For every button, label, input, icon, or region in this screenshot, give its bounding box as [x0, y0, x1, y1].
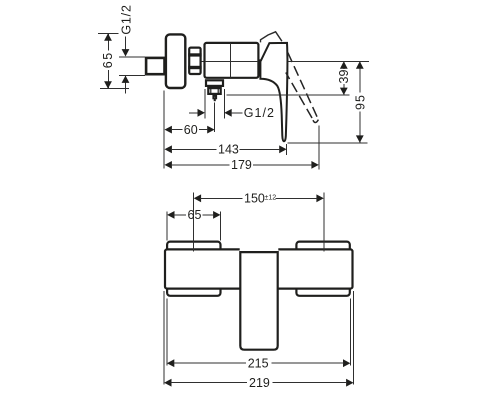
dim 39 (vertical, right) [337, 61, 351, 95]
svg-text:G1/2: G1/2 [244, 106, 275, 120]
svg-text:G1/2: G1/2 [119, 4, 133, 34]
dim 60 [164, 91, 214, 169]
dim 179 [165, 126, 319, 173]
outlet collar [206, 80, 223, 86]
mixer body [205, 43, 259, 78]
outlet hose nut [208, 87, 220, 95]
svg-text:60: 60 [184, 123, 198, 137]
dim 150±12 [194, 192, 324, 252]
outlet stub [213, 96, 216, 101]
escutcheon flange (side view) [166, 34, 185, 88]
dim 95 (vertical, far right) [227, 61, 369, 143]
wall union nipple (square pipe connector) [146, 58, 164, 74]
lever handle (solid position) [260, 43, 287, 141]
svg-text:143: 143 [218, 143, 239, 157]
svg-text:150: 150 [244, 192, 265, 206]
svg-text:95: 95 [353, 94, 367, 110]
svg-text:179: 179 [231, 158, 252, 172]
centerline axis [193, 61, 259, 63]
mask behind handle column [240, 247, 279, 293]
handle column (front) [240, 252, 277, 350]
right escutcheon (front) [296, 242, 349, 296]
union nut [188, 48, 201, 74]
dim 215 [167, 299, 351, 371]
dim 65 (vertical, left) [98, 33, 129, 88]
left escutcheon (front) [167, 242, 220, 296]
svg-text:65: 65 [101, 51, 115, 68]
dim 143 [165, 143, 287, 157]
dim G1/2 (top label with leader) [119, 4, 145, 93]
svg-text:±12: ±12 [265, 195, 277, 202]
dim G1/2 (outlet width) [189, 89, 275, 120]
svg-text:215: 215 [248, 356, 269, 370]
svg-text:39: 39 [337, 70, 351, 84]
lever alternate position (dashed blade) [286, 53, 319, 123]
lever alternate position (thin lines, raised) [261, 32, 282, 43]
dim 65 (bottom view) [167, 208, 220, 240]
mixer body bar (front) [165, 249, 353, 288]
dim 219 [164, 291, 353, 390]
svg-text:65: 65 [188, 208, 202, 222]
svg-text:219: 219 [249, 376, 270, 390]
